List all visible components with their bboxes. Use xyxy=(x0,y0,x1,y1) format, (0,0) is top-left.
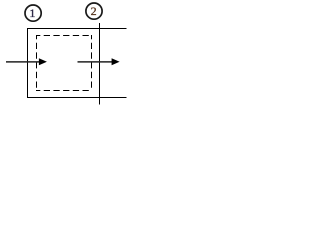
station circle 2 xyxy=(86,3,102,19)
dashed control volume: top edge xyxy=(36,35,92,37)
outflow arrowhead xyxy=(112,58,120,65)
section line 2 (vertical line below circle 2) xyxy=(99,23,101,105)
dashed control volume: bottom edge xyxy=(36,90,92,92)
background xyxy=(0,0,139,105)
outflow arrow shaft xyxy=(78,61,113,63)
inflow arrowhead xyxy=(39,58,47,65)
svg-text:1: 1 xyxy=(29,6,35,20)
inflow arrow shaft xyxy=(6,61,40,63)
station circle 1 xyxy=(25,5,41,21)
dashed control volume: right edge xyxy=(91,35,93,91)
svg-text:2: 2 xyxy=(91,4,97,18)
duct outline (open box: top, left, bottom edges) xyxy=(28,29,127,98)
dashed control volume: left edge xyxy=(36,35,38,91)
